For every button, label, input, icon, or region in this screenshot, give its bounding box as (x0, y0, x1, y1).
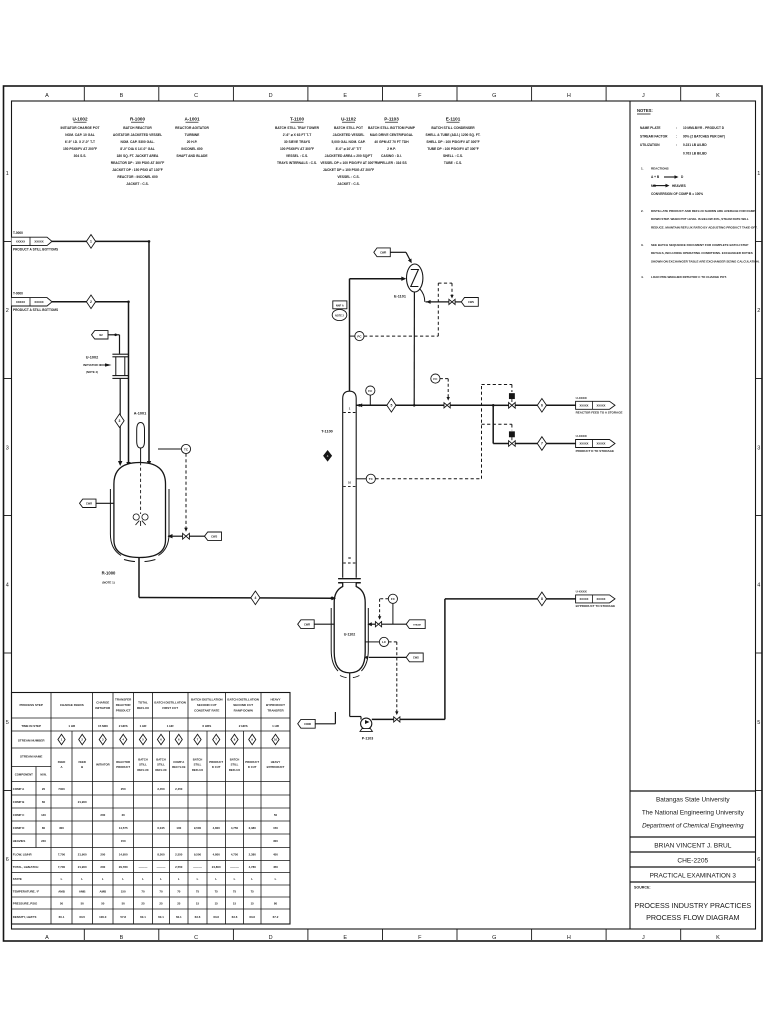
svg-text:8: 8 (541, 597, 543, 601)
svg-text:70: 70 (159, 889, 163, 893)
svg-text:70: 70 (177, 889, 181, 893)
svg-text:57.8: 57.8 (120, 915, 126, 919)
svg-text:BATCH DISTILLATION: BATCH DISTILLATION (191, 698, 223, 702)
condenser E-1101 (407, 264, 423, 292)
svg-text:A-1001: A-1001 (134, 412, 146, 416)
svg-text:60: 60 (42, 800, 46, 804)
svg-text:15: 15 (196, 901, 200, 905)
svg-text:3: 3 (757, 445, 760, 451)
svg-text:K: K (716, 935, 720, 941)
svg-text:INITIATOR CHARGE POT: INITIATOR CHARGE POT (60, 126, 99, 130)
instrument FC steam (388, 594, 397, 603)
svg-text:NNF A: NNF A (336, 304, 344, 308)
svg-text:L: L (197, 877, 199, 881)
wire feed into pot (332, 597, 334, 599)
svg-text:U-XXXX: U-XXXX (576, 396, 587, 400)
svg-text:1 HR: 1 HR (167, 724, 175, 728)
still pot U-1102 neck flange (338, 578, 361, 580)
svg-text:70: 70 (141, 889, 145, 893)
svg-text:2.: 2. (641, 209, 644, 213)
wire to reactor feed storage tag (547, 404, 576, 406)
svg-text:JACKET DP = 100 PSIG AT 200°F: JACKET DP = 100 PSIG AT 200°F (323, 168, 374, 172)
svg-text:SHELL & TUBE (ADJ.) 1200 SQ. F: SHELL & TUBE (ADJ.) 1200 SQ. FT. (426, 133, 481, 137)
control line TC to takeoff valves (375, 478, 481, 480)
svg-text:SHOWN ON EXCHANGER TABLE ARE E: SHOWN ON EXCHANGER TABLE ARE EXCHANGER S… (651, 259, 760, 263)
svg-text:B: B (81, 765, 83, 769)
wire to product D storage tag (547, 443, 576, 445)
svg-text:U-XXXX: U-XXXX (576, 434, 587, 438)
svg-text:40 GPM AT 70 FT TDH: 40 GPM AT 70 FT TDH (374, 140, 409, 144)
svg-text:STILL: STILL (231, 763, 239, 767)
svg-text:PRACTICAL EXAMINATION 3: PRACTICAL EXAMINATION 3 (650, 873, 737, 880)
reactor impeller (133, 514, 139, 520)
svg-text:5: 5 (757, 720, 760, 726)
svg-text:8,500: 8,500 (157, 852, 165, 856)
svg-text:FEED: FEED (58, 760, 65, 764)
svg-text:10: 10 (348, 480, 352, 484)
wire charge pot to reactor (119, 378, 121, 464)
svg-text:A: A (60, 765, 62, 769)
svg-text:60.1: 60.1 (140, 915, 146, 919)
svg-text:STREAM NUMBER: STREAM NUMBER (18, 739, 45, 743)
svg-text:BATCH: BATCH (138, 757, 148, 761)
utility flag STEAM (406, 620, 425, 629)
svg-text:COMP A: COMP A (173, 760, 184, 764)
svg-text:UTILIZATION: UTILIZATION (640, 143, 660, 147)
stream diamond 1 (86, 235, 95, 249)
svg-text:K: K (716, 93, 720, 99)
svg-text:BATCH STILL CONDENSER: BATCH STILL CONDENSER (431, 126, 475, 130)
svg-text:63.5: 63.5 (79, 915, 85, 919)
svg-text:REACTOR: REACTOR (116, 760, 130, 764)
svg-text:STILL: STILL (157, 763, 165, 767)
svg-text:PRODUCT: PRODUCT (209, 760, 223, 764)
notes column divider (629, 101, 631, 929)
svg-text:REACTOR AGITATOR: REACTOR AGITATOR (175, 126, 209, 130)
svg-text:4,800: 4,800 (213, 826, 221, 830)
svg-text:SHELL DP : 100 PSIG/FV AT 300°: SHELL DP : 100 PSIG/FV AT 300°F (426, 140, 479, 144)
svg-text:TOTAL, LB/BATCH: TOTAL, LB/BATCH (13, 865, 39, 869)
svg-text:CWR: CWR (86, 501, 92, 505)
svg-text:M.W.: M.W. (40, 773, 47, 777)
svg-text:L: L (251, 877, 253, 881)
svg-text:15 MIN: 15 MIN (98, 724, 108, 728)
svg-text:150: 150 (121, 889, 126, 893)
svg-text:REACTOR FEED TO A STORAGE: REACTOR FEED TO A STORAGE (576, 411, 623, 415)
svg-text:450: 450 (273, 852, 278, 856)
svg-text:REACTOR DP : 150 PSIG AT 300°F: REACTOR DP : 150 PSIG AT 300°F (111, 161, 165, 165)
svg-text:100 PSIG/FV AT 300°F: 100 PSIG/FV AT 300°F (280, 147, 314, 151)
svg-text:———: ——— (230, 865, 239, 869)
svg-text:E-1101: E-1101 (446, 117, 461, 122)
instrument TC reactor (158, 448, 181, 450)
wire feed 1 vertical to reactor (148, 241, 150, 464)
svg-text:4,750: 4,750 (231, 826, 239, 830)
svg-text:U-1002: U-1002 (72, 117, 88, 122)
svg-text:2 H.P.: 2 H.P. (387, 147, 396, 151)
node at still pot feed (330, 597, 333, 600)
svg-text:CASING : D.I.: CASING : D.I. (381, 154, 402, 158)
svg-text:CWS: CWS (468, 300, 474, 304)
svg-text:200: 200 (100, 852, 105, 856)
svg-text:63.6: 63.6 (232, 915, 238, 919)
valve on reactor CWS (183, 533, 190, 539)
svg-text:SEE BATCH SEQUENCE DOCUMENT FO: SEE BATCH SEQUENCE DOCUMENT FOR COMPLETE… (651, 243, 748, 247)
wire pot bottom to pump (349, 673, 351, 717)
svg-text:7400: 7400 (58, 787, 65, 791)
svg-text::: : (676, 135, 677, 139)
stream diamond 4 (251, 591, 260, 605)
control line TC to jacket CWS valve (185, 454, 187, 529)
svg-text:XXXXX: XXXXX (580, 597, 589, 601)
svg-text:A-1001: A-1001 (184, 117, 200, 122)
svg-text:B: B (120, 935, 124, 941)
svg-text:4: 4 (757, 583, 760, 589)
svg-text:REACTIONS: REACTIONS (651, 167, 669, 171)
wire feed 2 horizontal (52, 301, 129, 303)
svg-text:TURBINE: TURBINE (185, 133, 200, 137)
svg-text:3: 3 (6, 445, 9, 451)
svg-text:TRANSFER: TRANSFER (267, 709, 284, 713)
wire CWS to reactor jacket (189, 535, 204, 537)
svg-text:STATE: STATE (13, 877, 22, 881)
column T-1100 shell (343, 391, 357, 578)
svg-text:XXXXX: XXXXX (16, 300, 25, 304)
svg-text:0.763 LB B/LBD: 0.763 LB B/LBD (683, 152, 707, 156)
utility flag CWR (reactor jacket return) (80, 499, 97, 507)
svg-text:TUBE DP : 100 PSIG/FV AT 300°F: TUBE DP : 100 PSIG/FV AT 300°F (427, 147, 478, 151)
svg-text:BATCH: BATCH (193, 757, 203, 761)
svg-text:G: G (492, 93, 496, 99)
svg-text:2 HRS: 2 HRS (119, 724, 128, 728)
svg-text:8'-0" ⌀ 10'-6" T/T: 8'-0" ⌀ 10'-6" T/T (336, 147, 362, 151)
utility flag CWS (reactor jacket supply) (205, 532, 222, 540)
svg-text:15: 15 (251, 901, 255, 905)
svg-text:20: 20 (42, 787, 46, 791)
svg-text:300: 300 (273, 839, 278, 843)
svg-text:N2: N2 (99, 333, 103, 337)
svg-text:BYPRODUCT: BYPRODUCT (267, 765, 285, 769)
svg-text:FIRST CUT: FIRST CUT (162, 706, 178, 710)
svg-text::: : (676, 143, 677, 147)
svg-text:REFLUX: REFLUX (155, 768, 166, 772)
svg-text:(NOTE 4): (NOTE 4) (86, 370, 98, 374)
svg-text:4,750: 4,750 (231, 852, 239, 856)
node column reflux nozzle (358, 404, 361, 407)
svg-text::: : (676, 126, 677, 130)
reactor agitator shaft (140, 462, 142, 514)
svg-text:1.: 1. (641, 167, 644, 171)
instrument PC overhead (350, 335, 355, 337)
svg-text:14,950: 14,950 (119, 852, 128, 856)
svg-text:———: ——— (157, 865, 166, 869)
svg-text:1 HR: 1 HR (140, 724, 148, 728)
svg-text:L: L (234, 877, 236, 881)
svg-text:T-1100: T-1100 (321, 429, 333, 433)
svg-text:INITIATOR: INITIATOR (95, 706, 111, 710)
svg-text:200: 200 (100, 813, 105, 817)
svg-text:XXXXX: XXXXX (597, 597, 606, 601)
instrument TC tray 10 (356, 478, 366, 480)
svg-text:JACKET DP : 150 PSIG AT 130°: JACKET DP : 150 PSIG AT 130°F (112, 168, 163, 172)
svg-text:A: A (45, 935, 49, 941)
svg-text:DOWN STEP. WHEN POT LEVEL IS: DOWN STEP. WHEN POT LEVEL IS BELOW 30%, … (651, 217, 749, 221)
svg-text:CWR: CWR (304, 622, 310, 626)
svg-text:21,900: 21,900 (78, 800, 87, 804)
svg-text:R-1000: R-1000 (130, 117, 146, 122)
svg-text:200: 200 (100, 865, 105, 869)
svg-text:HEAVY: HEAVY (271, 760, 281, 764)
svg-text:PROCESS FLOW DIAGRAM: PROCESS FLOW DIAGRAM (646, 913, 739, 922)
vessel U-1002 initiator charge pot (112, 353, 128, 355)
svg-text:150 PSIG/FV AT 200°F: 150 PSIG/FV AT 200°F (63, 147, 97, 151)
svg-text:75: 75 (251, 889, 255, 893)
node feed2 corner (127, 301, 130, 304)
stream diamond 5 (387, 399, 396, 413)
wire condensate from pot jacket (315, 723, 335, 725)
svg-text:60.1: 60.1 (158, 915, 164, 919)
svg-text:304 S.S.: 304 S.S. (74, 154, 87, 158)
svg-text:1: 1 (6, 171, 9, 177)
svg-text:HEAVIES: HEAVIES (13, 839, 26, 843)
svg-text:JACKETED VESSEL: JACKETED VESSEL (333, 133, 365, 137)
svg-text:COMP B: COMP B (13, 800, 25, 804)
stream diamond 2 (86, 295, 95, 309)
svg-text:150: 150 (121, 839, 126, 843)
svg-text:JACKETED AREA = 200 SQ/FT: JACKETED AREA = 200 SQ/FT (325, 154, 373, 158)
agitator A-1001 motor capsule (137, 423, 145, 449)
svg-text:NOTE 2: NOTE 2 (335, 314, 344, 317)
svg-text:XXXXX: XXXXX (34, 300, 43, 304)
svg-text:BATCH: BATCH (230, 757, 240, 761)
wire takeoff line 2 (493, 443, 508, 445)
wire condenser CWS (420, 289, 425, 302)
svg-text:BATCH DISTILLATION: BATCH DISTILLATION (154, 700, 186, 704)
svg-text:CWS: CWS (211, 534, 217, 538)
svg-text:180 SQ. FT. JACKET AREA: 180 SQ. FT. JACKET AREA (117, 154, 159, 158)
still pot U-1102 body (334, 583, 365, 673)
svg-text:50: 50 (81, 901, 85, 905)
svg-text:XXXXX: XXXXX (597, 403, 606, 407)
wire condenser CWR (390, 251, 406, 253)
control line FC to distillate valve (440, 378, 448, 380)
svg-text:G: G (492, 935, 496, 941)
svg-text:80: 80 (274, 901, 278, 905)
svg-text:BATCH REACTOR: BATCH REACTOR (123, 126, 152, 130)
svg-text:STEAM: STEAM (413, 623, 421, 626)
utility flag CWR condenser (374, 248, 391, 257)
wire feed 1 horizontal (52, 240, 149, 242)
svg-text:NAME PLATE: NAME PLATE (640, 126, 660, 130)
svg-text:L: L (178, 877, 180, 881)
valve condenser CWS (449, 299, 455, 304)
wire condensate downcomer (413, 292, 415, 405)
svg-text:Department of Chemical Enginee: Department of Chemical Engineering (642, 823, 744, 830)
svg-text:10 MMLB/YR - PRODUCT D: 10 MMLB/YR - PRODUCT D (683, 126, 725, 130)
svg-text:XXXXX: XXXXX (597, 442, 606, 446)
svg-text:1 HR: 1 HR (272, 724, 280, 728)
svg-text:75: 75 (196, 889, 200, 893)
svg-text:6: 6 (541, 404, 543, 408)
svg-text:2,450: 2,450 (157, 787, 165, 791)
svg-text:U-1002: U-1002 (86, 356, 98, 360)
valve distillate (444, 403, 450, 408)
svg-text:T-0000: T-0000 (13, 231, 23, 235)
svg-text:50: 50 (60, 901, 64, 905)
svg-text:1 HR: 1 HR (68, 724, 76, 728)
svg-text:FEED: FEED (78, 760, 85, 764)
svg-text:NOM. CAP. 10 GAL: NOM. CAP. 10 GAL (65, 133, 94, 137)
instrument FC distillate (431, 374, 440, 383)
svg-text:PRODUCT: PRODUCT (116, 765, 130, 769)
svg-text:JACKET : C.S.: JACKET : C.S. (337, 182, 360, 186)
svg-text:2: 2 (757, 308, 760, 314)
svg-text:L: L (61, 877, 63, 881)
svg-text:50: 50 (122, 901, 126, 905)
svg-text:5: 5 (6, 720, 9, 726)
svg-text:INCONEL 600: INCONEL 600 (181, 147, 202, 151)
svg-text:HEAVIES: HEAVIES (672, 184, 686, 188)
black diamond marker (324, 451, 332, 461)
svg-text:PRODUCT D TO STORAGE: PRODUCT D TO STORAGE (576, 449, 614, 453)
svg-text:30 SIEVE TRAYS: 30 SIEVE TRAYS (284, 140, 311, 144)
svg-text:COMP C: COMP C (13, 813, 25, 817)
svg-text:250: 250 (121, 787, 126, 791)
svg-text:INITIATOR: INITIATOR (96, 763, 110, 767)
svg-text:6'-9" I.D. X 2'-0" T-T: 6'-9" I.D. X 2'-0" T-T (65, 140, 95, 144)
control line FC to steam valve (380, 598, 389, 600)
svg-text:D CUT: D CUT (212, 765, 221, 769)
svg-text:29,780: 29,780 (119, 865, 128, 869)
svg-text:COMP A: COMP A (13, 787, 25, 791)
svg-text:1: 1 (757, 171, 760, 177)
svg-text:7,700: 7,700 (58, 865, 66, 869)
svg-text:3.: 3. (641, 243, 644, 247)
svg-text:HEAVY: HEAVY (270, 698, 280, 702)
utility flag CWR still pot (298, 620, 315, 629)
valve steam (375, 622, 381, 627)
svg-text:L: L (275, 877, 277, 881)
svg-text:7,700: 7,700 (58, 852, 66, 856)
svg-text:BATCH: BATCH (156, 757, 166, 761)
svg-text:BATCH STILL BOTTOM PUMP: BATCH STILL BOTTOM PUMP (368, 126, 416, 130)
svg-text:AMB: AMB (58, 889, 65, 893)
svg-text:L: L (122, 877, 124, 881)
tray 10 (343, 486, 356, 488)
svg-text:7: 7 (541, 442, 543, 446)
svg-text:XXXXX: XXXXX (34, 240, 43, 244)
control valve 2 with actuator (509, 441, 516, 447)
svg-text:PRODUCT A STILL BOTTOMS: PRODUCT A STILL BOTTOMS (13, 248, 58, 252)
svg-text:24,800: 24,800 (212, 865, 221, 869)
svg-text:REFLUX: REFLUX (229, 768, 240, 772)
svg-text:PRODUCT: PRODUCT (116, 709, 131, 713)
svg-text:D: D (269, 93, 273, 99)
svg-text:MAG DRIVE CENTRIFUGAL: MAG DRIVE CENTRIFUGAL (370, 133, 413, 137)
svg-text:STREAM NAME: STREAM NAME (20, 755, 42, 759)
svg-text:J: J (642, 935, 645, 941)
svg-text:PROCESS INDUSTRY PRACTICES: PROCESS INDUSTRY PRACTICES (634, 901, 751, 910)
svg-text:RECYLCE: RECYLCE (172, 765, 185, 769)
instrument LC still pot (365, 641, 379, 643)
svg-text:100: 100 (176, 826, 181, 830)
wire reactor product to still pot (139, 597, 332, 600)
wire steam to pot (382, 623, 407, 625)
svg-text:4,800: 4,800 (213, 852, 221, 856)
svg-text:2,450: 2,450 (175, 787, 183, 791)
svg-text:B: B (120, 93, 124, 99)
svg-text:VESSEL : C.S.: VESSEL : C.S. (286, 154, 308, 158)
wire pump discharge (372, 718, 394, 720)
svg-text:VESSEL : C.S.: VESSEL : C.S. (337, 175, 359, 179)
title block (630, 790, 756, 792)
svg-text:TIME IN STEP: TIME IN STEP (21, 724, 41, 728)
svg-text:CONSTANT RATE: CONSTANT RATE (194, 709, 219, 713)
svg-text:XXXXX: XXXXX (580, 403, 589, 407)
svg-text:67.2: 67.2 (273, 915, 279, 919)
svg-text:L: L (160, 877, 162, 881)
utility flag COND (298, 719, 316, 728)
column bottom flange (338, 578, 361, 580)
svg-text:L: L (81, 877, 83, 881)
svg-text:2,550: 2,550 (175, 852, 183, 856)
reactor jacket walls (110, 489, 121, 556)
svg-text:COMPONENT: COMPONENT (15, 773, 33, 777)
svg-text:25: 25 (141, 901, 145, 905)
svg-text:BYPRODUCT TO STORAGE: BYPRODUCT TO STORAGE (576, 604, 616, 608)
svg-text:140: 140 (41, 813, 46, 817)
svg-text:300: 300 (59, 826, 64, 830)
svg-text:PROCESS STEP: PROCESS STEP (20, 703, 43, 707)
svg-text:2: 2 (90, 300, 92, 304)
svg-text:9,500: 9,500 (194, 826, 202, 830)
svg-text:REFLUX: REFLUX (137, 706, 149, 710)
svg-text:PRODUCT A STILL BOTTOMS: PRODUCT A STILL BOTTOMS (13, 308, 58, 312)
svg-text:LOAD PRE-WEIGHED INITIATOR C T: LOAD PRE-WEIGHED INITIATOR C TO CHARGE P… (651, 275, 727, 279)
svg-text:H: H (567, 935, 571, 941)
wire reflux/distillate header (356, 404, 445, 406)
svg-text:C: C (194, 935, 198, 941)
wire takeoff line 2 drop (492, 405, 494, 443)
vessel R-1000 batch reactor body (114, 463, 166, 558)
svg-text:TEMPERATURE, °F: TEMPERATURE, °F (13, 889, 40, 893)
svg-text:6,045: 6,045 (157, 826, 165, 830)
node feed1 corner (148, 240, 151, 243)
svg-text:2'-6" ⌀ X 63 FT T-T: 2'-6" ⌀ X 63 FT T-T (283, 133, 312, 137)
svg-text:T-1100: T-1100 (290, 117, 304, 122)
svg-text:REDUCE. MAINTAIN REFLUX RATIO: REDUCE. MAINTAIN REFLUX RATIO BY ADJUSTI… (651, 225, 758, 229)
svg-text:3: 3 (119, 419, 121, 423)
wire CWR from reactor jacket (96, 502, 114, 504)
utility flag N2 purge (92, 331, 109, 339)
svg-text:50: 50 (274, 813, 278, 817)
svg-text:U-XXXX: U-XXXX (576, 590, 587, 594)
svg-text:1: 1 (90, 240, 92, 244)
instrument FC reflux (369, 395, 371, 405)
tray 30 (343, 562, 356, 564)
utility flag CWS condenser (461, 298, 478, 307)
svg-text:P-1103: P-1103 (384, 117, 399, 122)
svg-text:TRAYS INTERNALS : C.S.: TRAYS INTERNALS : C.S. (277, 161, 317, 165)
svg-text:REFLUX: REFLUX (137, 768, 148, 772)
still pot jacket (331, 608, 338, 671)
control line LC to bottoms valve (389, 641, 397, 643)
svg-text:E-1101: E-1101 (394, 295, 406, 299)
pump P-1103 (361, 718, 372, 729)
svg-text:———: ——— (139, 865, 148, 869)
svg-text:D: D (269, 935, 273, 941)
svg-text:C: C (194, 93, 198, 99)
